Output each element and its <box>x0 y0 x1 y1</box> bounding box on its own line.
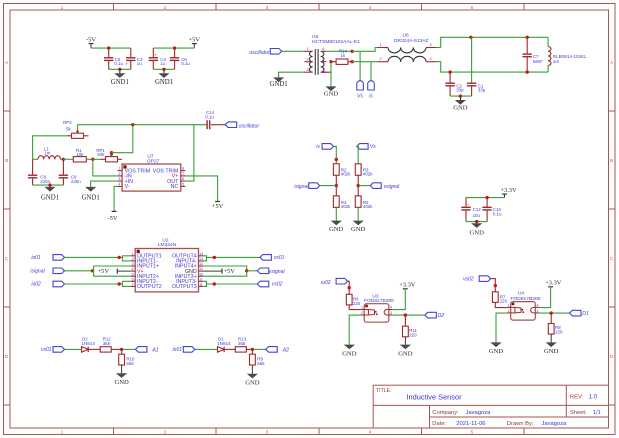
junction <box>118 256 121 259</box>
resistor R13 365 <box>235 336 246 352</box>
ground GND <box>470 222 485 237</box>
svg-text:GND: GND <box>114 379 129 386</box>
net label vs01 <box>41 347 64 354</box>
svg-text:1: 1 <box>132 252 134 256</box>
svg-text:B: B <box>5 158 8 163</box>
wire to is tap <box>370 62 372 81</box>
svg-text:3: 3 <box>266 5 269 10</box>
svg-text:7: 7 <box>132 283 134 287</box>
wire R7 to pin1 <box>495 302 506 307</box>
svg-text:11: 11 <box>199 267 203 271</box>
ground GND <box>324 86 339 97</box>
svg-text:NC: NC <box>171 184 179 190</box>
svg-text:A2: A2 <box>282 347 289 353</box>
svg-text:2: 2 <box>164 430 167 435</box>
junction <box>550 311 553 314</box>
ground GND <box>398 345 413 358</box>
svg-text:220: 220 <box>409 332 417 337</box>
junction <box>469 36 472 39</box>
capacitor C6 0.1u <box>170 48 190 69</box>
wire pin5/pin4 to gnd <box>321 62 331 87</box>
power flag +3.3V <box>399 282 416 289</box>
net label A1 <box>135 347 158 354</box>
svg-text:14: 14 <box>199 252 203 256</box>
wire +3.3V to pin4 <box>393 289 406 310</box>
resistor R7 220 <box>492 292 507 304</box>
net label D1 <box>570 310 589 317</box>
svg-text:-5V: -5V <box>86 36 96 43</box>
svg-text:+3.3V: +3.3V <box>500 187 517 194</box>
op-amp U7 OP27 <box>118 154 186 191</box>
svg-text:vs02: vs02 <box>463 277 474 283</box>
svg-text:+5V: +5V <box>212 203 224 210</box>
capacitor C1 33p <box>467 37 486 96</box>
svg-text:1: 1 <box>61 430 64 435</box>
svg-text:io02: io02 <box>31 282 41 288</box>
svg-text:4: 4 <box>132 267 134 271</box>
wire io02 to pins 6,7 <box>65 281 131 286</box>
svg-text:+5V: +5V <box>98 268 110 275</box>
wire vs02 to R7 <box>491 279 496 292</box>
junction <box>213 282 216 285</box>
svg-text:Drawn By:: Drawn By: <box>507 421 534 427</box>
svg-text:oscillator: oscillator <box>249 50 270 56</box>
inductor L1 1m <box>33 147 64 160</box>
wire R10 to gnd <box>121 365 123 373</box>
svg-text:5: 5 <box>322 57 324 61</box>
ground GND1 <box>270 77 288 87</box>
svg-text:GND1: GND1 <box>111 79 129 86</box>
net label oscillator <box>249 49 282 57</box>
svg-text:isignal: isignal <box>30 269 45 275</box>
svg-text:3: 3 <box>306 68 308 72</box>
svg-text:GND: GND <box>245 380 260 387</box>
svg-text:io01: io01 <box>173 347 183 353</box>
resistor R14 1k <box>331 48 352 64</box>
svg-text:isignal: isignal <box>294 184 309 190</box>
svg-text:GND1: GND1 <box>155 79 173 86</box>
inductor U6 DR324A-513AZ <box>378 32 436 61</box>
svg-text:50k: 50k <box>97 152 105 157</box>
ground GND1 <box>82 187 100 202</box>
svg-text:OUTPUT2: OUTPUT2 <box>137 284 162 290</box>
optocoupler U3 FOD817B300 <box>360 293 394 322</box>
svg-text:GND: GND <box>489 348 504 355</box>
net label io01 <box>31 255 64 262</box>
net label isignal <box>30 268 64 275</box>
svg-text:1m: 1m <box>553 59 560 64</box>
svg-text:V-: V- <box>125 184 130 190</box>
svg-text:365: 365 <box>103 341 111 346</box>
svg-text:7: 7 <box>182 172 184 176</box>
capacitor C2 33p <box>445 72 464 96</box>
svg-text:33p: 33p <box>478 88 486 93</box>
svg-text:4: 4 <box>118 182 120 186</box>
svg-text:A1: A1 <box>151 347 158 353</box>
wire V+ to +5V <box>185 176 217 202</box>
svg-text:2: 2 <box>508 309 510 313</box>
capacitor C7 68nF <box>523 37 544 72</box>
svg-text:402k: 402k <box>341 172 351 177</box>
svg-text:1u: 1u <box>160 61 165 66</box>
junction <box>448 70 451 73</box>
wire R8 to gnd <box>550 334 552 342</box>
svg-text:1m: 1m <box>44 151 50 156</box>
svg-text:Inductive Sensor: Inductive Sensor <box>407 393 463 402</box>
resistor R8 220 <box>548 313 563 335</box>
capacitor C10 0.1u <box>482 198 502 222</box>
svg-text:0.1u: 0.1u <box>493 212 502 217</box>
junction <box>526 36 529 39</box>
wire io01 to D1 <box>195 348 218 350</box>
junction <box>91 269 94 272</box>
net label io02 <box>321 278 348 285</box>
capacitor C12 10u polarized <box>461 198 481 222</box>
svg-text:3: 3 <box>266 430 269 435</box>
junction <box>357 184 360 187</box>
svg-text:+: + <box>467 202 470 207</box>
transformer U5 HCTSM80102AAL-E1 <box>305 34 361 75</box>
wire node <box>63 158 73 160</box>
ground GND <box>453 96 468 111</box>
svg-text:2: 2 <box>132 257 134 261</box>
wire io02 to R6 <box>348 281 350 294</box>
svg-text:10k: 10k <box>76 152 84 157</box>
wire R5 to gnd <box>357 207 359 220</box>
resistor R12 365 <box>100 336 111 352</box>
ground GND <box>544 342 559 355</box>
svg-text:Company:: Company: <box>432 410 459 416</box>
svg-text:+5V: +5V <box>224 268 236 275</box>
ground GND <box>329 221 344 233</box>
svg-text:D2: D2 <box>438 313 445 319</box>
net label vs02 <box>463 276 491 283</box>
wire oscillator to T pin1 <box>282 50 304 52</box>
svg-text:3: 3 <box>132 262 134 266</box>
wire cap gnd join <box>33 184 64 186</box>
wire isignal to +IN pins 3,5 <box>93 266 131 276</box>
junction <box>494 284 497 287</box>
wire V- to -5V <box>114 186 118 211</box>
optocoupler U4 FOD817B300 <box>507 291 541 321</box>
svg-text:Vs: Vs <box>357 94 363 100</box>
svg-text:REV:: REV: <box>570 395 584 401</box>
svg-text:+3.3V: +3.3V <box>545 280 562 287</box>
svg-text:vsignal: vsignal <box>269 269 285 275</box>
resistor R6 220 <box>346 294 360 306</box>
wire pins 12,10 vsignal loop <box>203 266 247 276</box>
resistor R3 402k <box>355 164 373 177</box>
resistor R5 402k <box>355 196 373 209</box>
svg-text:GND: GND <box>544 348 559 355</box>
net label io02 <box>31 281 64 288</box>
junction <box>213 256 216 259</box>
wire OUT feedback <box>185 125 194 181</box>
junction <box>107 46 110 49</box>
power flag +5V <box>212 202 224 211</box>
svg-text:+: + <box>154 52 157 57</box>
wire node to -IN <box>93 159 118 176</box>
svg-text:220n: 220n <box>40 179 50 184</box>
svg-text:1k: 1k <box>341 53 346 58</box>
junction <box>173 46 176 49</box>
ground GND1 <box>41 185 59 201</box>
svg-text:402k: 402k <box>363 172 373 177</box>
wire R4 to gnd <box>335 207 337 220</box>
svg-text:GND: GND <box>453 104 468 111</box>
svg-text:GND: GND <box>470 230 485 237</box>
svg-text:5: 5 <box>471 430 474 435</box>
svg-text:Sheet:: Sheet: <box>570 410 587 416</box>
svg-text:GND: GND <box>329 226 344 233</box>
svg-text:6: 6 <box>132 277 134 281</box>
svg-text:vs01: vs01 <box>274 255 285 261</box>
ground GND1 <box>111 69 129 86</box>
junction <box>348 286 351 289</box>
net label io01 <box>173 347 195 354</box>
ground GND <box>489 342 504 355</box>
svg-text:3: 3 <box>429 43 431 47</box>
wire -5V rail <box>91 47 131 49</box>
wire pin3 to D2 <box>393 314 425 316</box>
wire +3.3V to pin4 <box>539 287 550 308</box>
ground GND <box>114 373 129 386</box>
svg-text:9: 9 <box>200 277 202 281</box>
wire pins 14,13 to vs01 <box>203 256 260 261</box>
resistor R10 665 <box>119 349 135 366</box>
wire vsignal out <box>247 270 258 272</box>
svg-text:OUTPUT3: OUTPUT3 <box>172 284 197 290</box>
svg-text:5: 5 <box>182 182 184 186</box>
svg-text:220n: 220n <box>71 179 81 184</box>
junction <box>91 158 94 161</box>
svg-text:4: 4 <box>429 57 431 61</box>
wire pin2 to gnd <box>496 313 507 342</box>
wire RP1 wiper to rail <box>112 125 133 153</box>
svg-text:68nF: 68nF <box>533 59 543 64</box>
title block <box>373 385 608 428</box>
svg-text:665: 665 <box>126 361 134 366</box>
svg-text:is: is <box>316 144 320 150</box>
svg-text:1: 1 <box>379 43 381 47</box>
inductor L RLB0914-102KL 1m <box>548 37 587 72</box>
svg-text:220: 220 <box>500 299 508 304</box>
junction <box>48 183 51 186</box>
ground GND1 <box>155 69 173 86</box>
resistor R9 665 <box>250 349 266 366</box>
capacitor C14 0.1u <box>205 110 225 129</box>
junction <box>120 348 123 351</box>
svg-text:4: 4 <box>537 304 539 308</box>
svg-text:2: 2 <box>164 5 167 10</box>
svg-text:GND1: GND1 <box>82 194 100 201</box>
svg-text:C12: C12 <box>473 207 482 212</box>
wire RP2 left to node <box>33 136 67 160</box>
svg-text:B: B <box>610 158 613 163</box>
junction <box>475 220 478 223</box>
wire R6 to pin1 <box>349 305 360 310</box>
svg-text:8: 8 <box>182 167 184 171</box>
power flag -5V <box>108 211 118 222</box>
svg-text:12: 12 <box>199 262 203 266</box>
resistor R11 220 <box>403 315 418 337</box>
junction <box>162 68 165 71</box>
svg-text:GND1: GND1 <box>41 194 59 201</box>
svg-text:1: 1 <box>306 47 308 51</box>
svg-text:365: 365 <box>238 341 246 346</box>
svg-text:GND: GND <box>324 91 339 98</box>
svg-text:8: 8 <box>200 283 202 287</box>
svg-text:0.1u: 0.1u <box>114 61 123 66</box>
power flag +3.3V <box>500 187 517 198</box>
wire pins 9,8 to vs02 <box>203 281 257 286</box>
svg-text:402k: 402k <box>363 204 373 209</box>
svg-text:1u: 1u <box>137 61 142 66</box>
wire Vs to divider <box>357 146 359 163</box>
svg-text:1N914: 1N914 <box>81 341 95 346</box>
svg-text:GND: GND <box>398 350 413 357</box>
resistor R1 10k <box>73 148 86 162</box>
ground GND <box>245 374 260 387</box>
junction <box>526 70 529 73</box>
svg-text:vs01: vs01 <box>41 347 52 353</box>
svg-text:1: 1 <box>361 306 363 310</box>
net label vs02 <box>257 281 282 288</box>
net label vsignal <box>257 268 285 275</box>
net label oscillator <box>225 122 259 129</box>
junction <box>335 158 338 161</box>
wire RP2 wiper to top rail <box>77 125 79 130</box>
power flag +5V pin4 <box>98 268 131 275</box>
ground GND <box>342 345 357 358</box>
svg-text:+: + <box>125 61 128 66</box>
svg-text:33p: 33p <box>456 88 464 93</box>
svg-text:2: 2 <box>361 311 363 315</box>
svg-text:5k: 5k <box>66 126 71 131</box>
svg-text:402k: 402k <box>341 204 351 209</box>
net label vsignal <box>370 183 400 190</box>
wire top feedback rail <box>78 124 207 126</box>
svg-text:-5V: -5V <box>108 215 118 222</box>
wire T pin6 out <box>326 50 352 52</box>
wire T pin3 to gnd <box>279 72 305 77</box>
svg-text:D1: D1 <box>582 311 589 317</box>
svg-text:5: 5 <box>132 272 134 276</box>
svg-text:1: 1 <box>508 304 510 308</box>
wire R12 out <box>111 348 135 350</box>
svg-text:io02: io02 <box>321 280 331 286</box>
junction T pin5 <box>329 60 332 63</box>
net label isignal <box>294 183 319 190</box>
wire 3v3 rail <box>466 197 505 199</box>
svg-text:GND: GND <box>351 226 366 233</box>
svg-text:3: 3 <box>390 311 392 315</box>
svg-text:Javagoza: Javagoza <box>542 421 568 427</box>
svg-text:+3.3V: +3.3V <box>399 282 416 289</box>
svg-text:1/1: 1/1 <box>593 410 601 416</box>
net flag Vs <box>357 81 364 100</box>
svg-text:6: 6 <box>182 177 184 181</box>
wire <box>357 175 359 195</box>
svg-text:Javagoza: Javagoza <box>466 410 492 416</box>
junction <box>335 184 338 187</box>
svg-text:0.1u: 0.1u <box>181 61 190 66</box>
svg-text:is: is <box>369 94 373 100</box>
junction <box>251 348 254 351</box>
svg-text:4: 4 <box>369 430 372 435</box>
op-amp U2 LM324N <box>131 237 204 292</box>
svg-text:Vs: Vs <box>370 144 376 150</box>
svg-text:oscillator: oscillator <box>239 123 260 129</box>
svg-text:1: 1 <box>118 167 120 171</box>
resistor R2 402k <box>333 164 351 177</box>
wire to Vs tap <box>359 51 361 80</box>
junction <box>62 158 65 161</box>
wire R13 out <box>246 348 265 350</box>
power flag +3.3V <box>545 280 562 287</box>
junction <box>404 313 407 316</box>
svg-text:2: 2 <box>379 57 381 61</box>
svg-text:GND1: GND1 <box>270 81 288 88</box>
svg-text:4: 4 <box>390 306 392 310</box>
wire vs01 to D2 <box>65 348 82 350</box>
wire io01 to pins 1,2 <box>65 256 131 261</box>
net flag Vs <box>357 144 377 150</box>
wire cap gnd join <box>450 95 472 97</box>
svg-text:220: 220 <box>353 301 361 306</box>
junction <box>351 50 354 53</box>
capacitor C9 220n <box>59 159 82 185</box>
capacitor C5 0.1u <box>104 48 124 69</box>
svg-text:2021-11-06: 2021-11-06 <box>456 421 485 427</box>
junction <box>131 123 134 126</box>
potentiometer RP2 5k <box>63 120 88 138</box>
svg-text:io01: io01 <box>31 255 41 261</box>
svg-text:1.0: 1.0 <box>589 395 598 401</box>
diode D1 1N914 <box>217 336 235 352</box>
svg-text:1: 1 <box>61 5 64 10</box>
junction <box>118 282 121 285</box>
wire to L pin1 <box>352 48 378 52</box>
wire +5V rail <box>153 47 194 49</box>
svg-text:0.1u: 0.1u <box>205 115 214 120</box>
svg-text:2: 2 <box>118 172 120 176</box>
diode D2 1N914 <box>81 336 100 352</box>
wire R9 to gnd <box>251 365 253 374</box>
svg-text:+5V: +5V <box>189 36 201 43</box>
svg-text:10u: 10u <box>473 213 481 218</box>
wire node <box>86 158 100 160</box>
wire R14 to L pin2 <box>352 61 378 63</box>
svg-text:5: 5 <box>471 5 474 10</box>
ground GND <box>351 221 366 233</box>
net label vs01 <box>260 255 285 262</box>
capacitor C8 220n <box>28 159 51 185</box>
svg-text:TITLE:: TITLE: <box>376 388 392 394</box>
junction <box>485 196 488 199</box>
wire gnd join <box>466 221 487 223</box>
resistor R4 402k <box>333 196 351 209</box>
capacitor C4 1u polarized <box>149 48 167 69</box>
power flag -5V <box>86 36 96 48</box>
net flag is <box>368 81 375 100</box>
svg-text:HCTSM80102AAL-E1: HCTSM80102AAL-E1 <box>312 39 360 45</box>
svg-text:U4: U4 <box>518 291 524 297</box>
wire gnd join <box>109 68 131 70</box>
wire isignal in <box>65 270 93 272</box>
net label D2 <box>425 312 444 319</box>
svg-text:Date:: Date: <box>432 421 446 427</box>
